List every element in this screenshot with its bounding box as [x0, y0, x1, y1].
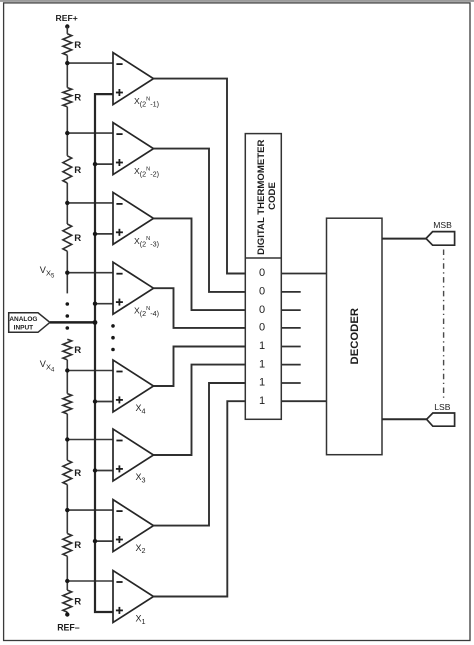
svg-text:R: R: [74, 345, 81, 356]
wire thermometer bit 2 stub: [281, 291, 300, 293]
node REF-: [65, 612, 69, 616]
wire decoder to MSB: [382, 238, 426, 240]
svg-text:R: R: [74, 40, 81, 51]
pin plus (non-inverting) op 4: [116, 301, 123, 303]
pin plus (non-inverting) op 7: [116, 539, 123, 541]
node tap 8: [65, 579, 69, 583]
node bus junction comparator 6: [93, 468, 97, 472]
svg-text:X3: X3: [136, 472, 146, 484]
wire ladder segment 5: [66, 251, 68, 293]
pin plus (non-inverting) op 1: [116, 92, 123, 94]
resistor R8: [63, 534, 72, 557]
svg-text:1: 1: [259, 395, 265, 407]
wire tap to comparator 3 inverting input: [67, 202, 113, 204]
pin minus (inverting) op 4: [116, 273, 122, 275]
svg-text:MSB: MSB: [433, 220, 452, 230]
wire tap to comparator 8 inverting input: [67, 580, 113, 582]
op-amp comparator X U5: [113, 360, 154, 412]
node bus junction comparator 5: [93, 399, 97, 403]
svg-text:1: 1: [259, 358, 265, 370]
wire thermometer bit 5 stub: [281, 346, 300, 348]
wire tap to comparator 7 inverting input: [67, 509, 113, 511]
node tap 2: [65, 131, 69, 135]
wire ladder segment 8: [66, 485, 68, 534]
LSB output flag: [427, 413, 455, 426]
svg-text:X(2N-1): X(2N-1): [134, 96, 159, 109]
op-amp comparator X4 U4: [113, 262, 154, 314]
wire thermometer bit 8 to decoder: [281, 400, 326, 402]
node tap 3: [65, 201, 69, 205]
wire thermometer bit 3 stub: [281, 309, 300, 311]
wire ladder segment 3: [66, 107, 68, 156]
wire bus to comparator 7 non-inverting input: [95, 540, 113, 542]
pin minus (inverting) op 6: [116, 440, 122, 442]
svg-text:DECODER: DECODER: [349, 308, 361, 365]
resistor R7: [63, 460, 72, 484]
op-amp comparator X U8: [113, 571, 154, 623]
wire tap to comparator 5 inverting input: [67, 370, 113, 372]
op-amp comparator X U6: [113, 429, 154, 481]
wire ladder segment 9: [66, 556, 68, 590]
wire comparator 6 output to thermometer bit 6: [154, 365, 246, 455]
node tap 6: [65, 437, 69, 441]
decoder box U9: [327, 218, 383, 455]
resistor R6: [63, 394, 72, 414]
pin minus (inverting) op 7: [116, 510, 122, 512]
svg-text:R: R: [74, 540, 81, 551]
svg-text:X(2N-4): X(2N-4): [134, 306, 159, 319]
wire bus to comparator 4 non-inverting input: [95, 303, 113, 305]
wire tap to comparator 1 inverting input: [67, 62, 113, 64]
pin plus (non-inverting) op 3: [116, 231, 123, 233]
ellipsis dots omitted comparators: [111, 324, 115, 328]
wire thermometer bit 4 stub: [281, 327, 300, 329]
wire tap to comparator 2 inverting input: [67, 132, 113, 134]
wire tap to comparator 4 inverting input: [67, 272, 113, 274]
wire ladder segment 2: [66, 55, 68, 87]
wire comparator 3 output to thermometer bit 3: [154, 218, 246, 310]
wire comparator 2 output to thermometer bit 2: [154, 149, 246, 292]
wire thermometer bit 7 stub: [281, 382, 300, 384]
wire comparator 1 output to thermometer bit 1: [154, 79, 246, 274]
resistor R4: [63, 224, 72, 251]
node tap 7: [65, 508, 69, 512]
node REF+: [65, 24, 69, 28]
scan artifact strip (border top shading): [0, 0, 474, 2]
wire thermometer bit 6 stub: [281, 364, 300, 366]
svg-text:R: R: [74, 93, 81, 104]
wire tap to comparator 6 inverting input: [67, 439, 113, 441]
wire analog input to bus: [50, 321, 95, 324]
wire thermometer bit 1 to decoder: [281, 273, 326, 275]
wire comparator 4 output to thermometer bit 4: [154, 288, 246, 328]
node bus junction comparator 2: [93, 162, 97, 166]
wire ladder segment 4: [66, 183, 68, 224]
pin plus (non-inverting) op 5: [116, 399, 123, 401]
resistor R1: [63, 34, 72, 56]
node tap 5 (VX4): [65, 368, 69, 372]
svg-text:INPUT: INPUT: [14, 325, 34, 332]
svg-text:VX4: VX4: [40, 359, 55, 374]
svg-text:0: 0: [259, 286, 265, 298]
svg-text:CODE: CODE: [267, 182, 278, 210]
resistor R9: [63, 590, 72, 612]
ellipsis dots ladder (omitted taps): [66, 302, 70, 306]
svg-text:LSB: LSB: [434, 402, 451, 412]
wire comparator 8 output to thermometer bit 8: [154, 401, 246, 596]
node bus junction comparator 4: [93, 302, 97, 306]
wire bus to comparator 3 non-inverting input: [95, 233, 113, 235]
op-amp comparator X2 U2: [113, 123, 154, 175]
wire comparator 7 output to thermometer bit 7: [154, 383, 246, 526]
pin minus (inverting) op 1: [116, 63, 122, 65]
pin plus (non-inverting) op 2: [116, 162, 123, 164]
resistor R5: [63, 339, 72, 360]
resistor R2: [63, 88, 72, 107]
pin plus (non-inverting) op 6: [116, 468, 123, 470]
svg-text:X(2N-2): X(2N-2): [134, 166, 159, 179]
wire bus to comparator 5 non-inverting input: [95, 401, 113, 403]
svg-text:1: 1: [259, 340, 265, 352]
wire ladder segment 7: [66, 414, 68, 460]
wire decoder to LSB: [382, 418, 427, 420]
dashed range line MSB..LSB: [443, 250, 445, 400]
pin minus (inverting) op 8: [116, 581, 122, 583]
svg-text:R: R: [74, 165, 81, 176]
node bus junction comparator 7: [93, 539, 97, 543]
digital thermometer code box: [245, 134, 281, 420]
svg-text:X(2N-3): X(2N-3): [134, 236, 159, 249]
svg-text:REF+: REF+: [56, 13, 78, 23]
wire analog input bus: [95, 94, 113, 612]
svg-text:REF–: REF–: [57, 622, 80, 632]
wire bus to comparator 6 non-inverting input: [95, 470, 113, 472]
pin minus (inverting) op 5: [116, 371, 122, 373]
resistor R3: [63, 156, 72, 183]
svg-text:X2: X2: [136, 543, 146, 555]
svg-text:R: R: [74, 233, 81, 244]
wire comparator 5 output to thermometer bit 5: [154, 347, 246, 387]
pin plus (non-inverting) op 8: [116, 609, 123, 611]
svg-text:DIGITAL THERMOMETER: DIGITAL THERMOMETER: [256, 139, 267, 254]
svg-text:X4: X4: [136, 403, 146, 415]
pin minus (inverting) op 2: [116, 133, 122, 135]
wire bus to comparator 2 non-inverting input: [95, 163, 113, 165]
op-amp comparator X3 U3: [113, 192, 154, 244]
svg-text:0: 0: [259, 322, 265, 334]
svg-text:VX5: VX5: [40, 265, 55, 280]
op-amp comparator X1 U1: [113, 53, 154, 105]
MSB output flag: [426, 232, 455, 246]
wire ladder segment 6: [66, 360, 68, 394]
node tap 4 (VX5): [65, 271, 69, 275]
svg-text:X1: X1: [136, 614, 146, 626]
svg-text:0: 0: [259, 267, 265, 279]
node tap 1: [65, 61, 69, 65]
node analog input junction: [93, 320, 98, 325]
svg-text:ANALOG: ANALOG: [9, 316, 37, 323]
svg-text:R: R: [74, 597, 81, 608]
op-amp comparator X U7: [113, 500, 154, 552]
wire ladder segment 10: [66, 612, 68, 614]
analog input flag: [9, 313, 50, 333]
svg-text:0: 0: [259, 304, 265, 316]
pin minus (inverting) op 3: [116, 203, 122, 205]
thermometer box divider: [245, 257, 281, 259]
svg-text:1: 1: [259, 377, 265, 389]
svg-text:R: R: [74, 468, 81, 479]
wire ladder segment 1: [66, 27, 68, 34]
node bus junction comparator 3: [93, 232, 97, 236]
